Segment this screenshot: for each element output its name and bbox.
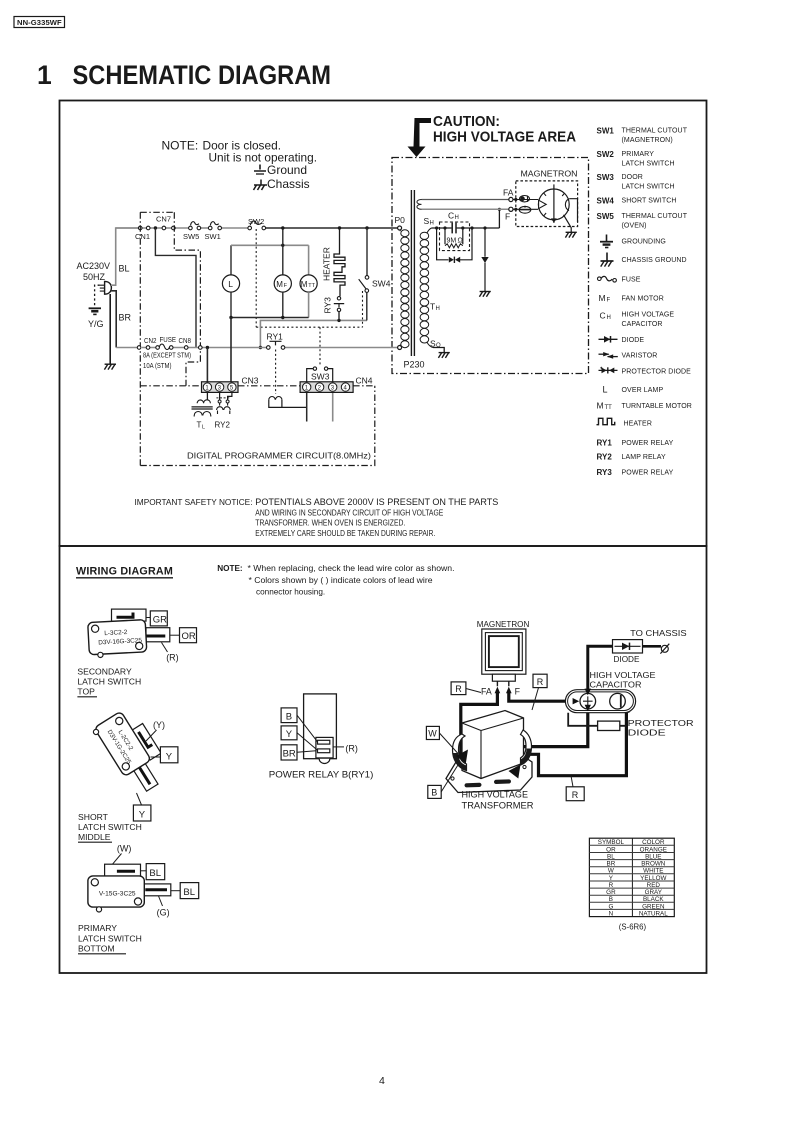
- svg-text:50HZ: 50HZ: [83, 272, 106, 282]
- label box BR: [281, 745, 297, 760]
- legend chassis symbol: [606, 253, 608, 262]
- node fuse line junction: [206, 346, 209, 349]
- top bus wire (black) SW2 to P0: [266, 227, 398, 229]
- top bus wire (gray): [116, 227, 189, 229]
- wire fuse line (gray): [116, 347, 397, 349]
- svg-text:(S-6R6): (S-6R6): [619, 923, 647, 932]
- heater element: [334, 228, 345, 296]
- svg-text:NN-G335WF: NN-G335WF: [17, 18, 62, 27]
- svg-text:PROTECTOR DIODE: PROTECTOR DIODE: [622, 369, 692, 376]
- resistor 9M: [445, 228, 463, 244]
- transformer filament winding: [417, 200, 422, 210]
- svg-text:CN3: CN3: [242, 376, 259, 386]
- relay coil RY2: [219, 393, 221, 400]
- magnetron anode wire: [569, 199, 577, 222]
- thick wire capacitor left to transformer: [517, 710, 588, 747]
- top tab: [132, 723, 162, 760]
- svg-text:TURNTABLE MOTOR: TURNTABLE MOTOR: [622, 403, 692, 410]
- svg-text:TOP: TOP: [77, 687, 95, 697]
- svg-text:DIODE: DIODE: [614, 655, 640, 664]
- high voltage area dash-dot box: [392, 158, 589, 374]
- svg-text:Ground: Ground: [267, 163, 307, 177]
- label box OR: [180, 628, 197, 643]
- svg-text:HIGH VOLTAGE: HIGH VOLTAGE: [462, 790, 529, 800]
- wire SH line: [431, 227, 499, 229]
- digital programmer circuit dash-dot boundary: [140, 386, 374, 466]
- svg-text:(R): (R): [345, 744, 358, 754]
- short latch switch (MIDDLE): [78, 705, 178, 842]
- svg-text:L: L: [228, 279, 233, 289]
- svg-text:TT: TT: [605, 405, 613, 411]
- magnetron ground: [564, 215, 572, 233]
- svg-text:SW5: SW5: [183, 232, 199, 241]
- svg-text:CN2: CN2: [144, 338, 157, 345]
- title: [37, 60, 331, 90]
- svg-text:PRIMARY: PRIMARY: [78, 923, 117, 933]
- svg-text:CN7: CN7: [156, 215, 171, 224]
- schematic outer box: [60, 101, 707, 547]
- label box GR: [150, 611, 167, 626]
- node MF tap: [281, 226, 284, 229]
- model label NN-G335WF: [14, 17, 65, 28]
- svg-text:C: C: [448, 211, 454, 221]
- label box BL 2: [180, 883, 199, 899]
- svg-text:TO CHASSIS: TO CHASSIS: [630, 629, 687, 638]
- R box bottom: [566, 787, 584, 801]
- svg-text:BLACK: BLACK: [643, 896, 664, 903]
- svg-text:C: C: [600, 311, 606, 321]
- svg-text:M: M: [597, 401, 604, 411]
- svg-text:BLUE: BLUE: [645, 854, 661, 861]
- magnetron tube: [538, 189, 569, 220]
- dashed link RY1: [275, 350, 277, 395]
- legend heater symbol: [597, 418, 615, 424]
- svg-text:VARISTOR: VARISTOR: [622, 353, 658, 360]
- svg-text:RED: RED: [647, 882, 661, 889]
- svg-text:(G): (G): [157, 908, 170, 918]
- svg-text:HEATER: HEATER: [322, 247, 332, 281]
- svg-text:M: M: [276, 280, 283, 289]
- svg-text:SW1: SW1: [205, 232, 221, 241]
- lamp top link (gray): [231, 244, 309, 246]
- dashed box CH: [440, 222, 470, 251]
- svg-text:SW4: SW4: [372, 279, 391, 289]
- protector diode: [568, 713, 626, 726]
- svg-text:RY1: RY1: [267, 332, 284, 342]
- svg-text:BL: BL: [183, 887, 195, 898]
- svg-text:LATCH SWITCH: LATCH SWITCH: [622, 184, 675, 191]
- turntable motor MTT: [300, 275, 317, 292]
- svg-text:Ω: Ω: [458, 238, 463, 245]
- svg-text:RY1: RY1: [597, 439, 613, 448]
- svg-text:CAPACITOR: CAPACITOR: [622, 321, 663, 328]
- power relay B(RY1): [269, 694, 374, 779]
- switch SW3: [307, 369, 313, 382]
- svg-text:RY2: RY2: [597, 453, 613, 462]
- svg-text:W: W: [428, 729, 437, 739]
- lamp L riser: [230, 245, 232, 275]
- svg-text:* Colors shown by ( ) indicate: * Colors shown by ( ) indicate colors of…: [249, 576, 433, 585]
- svg-text:F: F: [607, 298, 611, 304]
- connector CN1: [138, 226, 142, 230]
- svg-text:HIGH VOLTAGE: HIGH VOLTAGE: [590, 670, 656, 680]
- svg-text:SCHEMATIC DIAGRAM: SCHEMATIC DIAGRAM: [73, 60, 332, 90]
- svg-text:BL: BL: [119, 264, 130, 274]
- svg-text:H: H: [436, 306, 440, 312]
- lamp L: [222, 275, 239, 292]
- svg-text:B: B: [286, 711, 292, 722]
- thick wire FA to transformer: [461, 693, 498, 753]
- safety notice: [135, 497, 499, 538]
- caution arrow: [408, 118, 432, 157]
- top tab: [112, 609, 147, 621]
- svg-text:Chassis: Chassis: [267, 177, 310, 191]
- svg-text:GR: GR: [606, 889, 616, 896]
- chassis ground symbol: [104, 364, 116, 369]
- svg-text:YELLOW: YELLOW: [640, 875, 666, 882]
- svg-text:H: H: [430, 221, 434, 227]
- svg-text:* When replacing, check the le: * When replacing, check the lead wire co…: [248, 564, 455, 573]
- dash-dot box CN1/CN7: [140, 212, 200, 465]
- turntable motor riser (gray): [308, 245, 310, 275]
- svg-text:FA: FA: [503, 188, 514, 198]
- svg-text:G: G: [608, 903, 613, 910]
- label box R (left): [451, 682, 466, 695]
- magnetron dotted box: [516, 181, 578, 227]
- svg-text:H: H: [607, 315, 611, 321]
- svg-text:B: B: [609, 896, 613, 903]
- top tab: [105, 864, 141, 877]
- svg-text:FAN MOTOR: FAN MOTOR: [622, 296, 664, 303]
- fan motor riser: [282, 228, 284, 275]
- switch SW1: [208, 226, 212, 230]
- svg-text:B: B: [431, 788, 437, 798]
- svg-text:V-15G-3C25: V-15G-3C25: [99, 891, 136, 898]
- svg-text:T: T: [430, 302, 435, 312]
- right tab: [144, 884, 171, 896]
- svg-text:(OVEN): (OVEN): [622, 223, 647, 230]
- svg-text:M: M: [599, 293, 606, 303]
- filament leads: [422, 199, 509, 201]
- svg-text:H: H: [455, 215, 459, 221]
- terminal F: [509, 207, 513, 211]
- svg-text:SYMBOL: SYMBOL: [598, 839, 625, 846]
- fan motor MF: [274, 275, 291, 292]
- svg-text:GR: GR: [153, 614, 167, 625]
- svg-text:LATCH SWITCH: LATCH SWITCH: [78, 822, 142, 832]
- chassis ground varistor: [479, 292, 490, 297]
- svg-text:OVER LAMP: OVER LAMP: [622, 387, 664, 394]
- switch SW4: [366, 228, 368, 276]
- switch SW2: [248, 226, 252, 230]
- node dots SH line: [435, 226, 438, 229]
- transformer pictorial: [446, 754, 532, 793]
- svg-text:N: N: [609, 911, 614, 918]
- relay contact RY1: [267, 346, 271, 350]
- svg-text:FUSE: FUSE: [622, 277, 641, 284]
- svg-text:MAGNETRON: MAGNETRON: [521, 169, 578, 179]
- svg-text:PROTECTOR: PROTECTOR: [628, 718, 694, 728]
- svg-text:SW3: SW3: [597, 173, 615, 182]
- legend diode symbol: [599, 338, 618, 340]
- svg-text:HIGH VOLTAGE AREA: HIGH VOLTAGE AREA: [433, 129, 576, 146]
- svg-text:POWER RELAY: POWER RELAY: [622, 470, 674, 477]
- transformer secondary winding: [420, 228, 433, 348]
- switch body: [88, 876, 144, 907]
- svg-text:9M: 9M: [447, 238, 457, 245]
- svg-text:LATCH SWITCH: LATCH SWITCH: [622, 161, 675, 168]
- label box B: [428, 785, 441, 798]
- svg-text:POWER RELAY: POWER RELAY: [622, 440, 674, 447]
- leaders: [297, 715, 318, 752]
- terminal P230 bottom: [398, 346, 402, 350]
- dotted linkage SW4: [362, 291, 364, 327]
- transformer primary winding: [400, 229, 409, 348]
- switch body: [88, 620, 147, 658]
- svg-text:Y: Y: [139, 810, 146, 821]
- wire BR: [111, 291, 116, 348]
- svg-text:8A (EXCEPT STM): 8A (EXCEPT STM): [143, 353, 191, 360]
- wire CN4 pin1: [306, 392, 308, 422]
- svg-text:GREEN: GREEN: [642, 903, 665, 910]
- dotted linkage rail: [256, 326, 362, 328]
- capacitor CH plates: [452, 223, 456, 234]
- varistor: [484, 228, 486, 292]
- svg-text:MIDDLE: MIDDLE: [78, 832, 111, 842]
- svg-text:DIODE: DIODE: [628, 727, 666, 737]
- svg-text:ORANGE: ORANGE: [640, 846, 667, 853]
- svg-text:DIODE: DIODE: [622, 337, 645, 344]
- svg-text:PRIMARY: PRIMARY: [622, 151, 655, 158]
- svg-text:OR: OR: [606, 846, 616, 853]
- dotted door linkage SW2: [255, 229, 257, 327]
- svg-text:P230: P230: [404, 360, 425, 370]
- svg-text:10A (STM): 10A (STM): [143, 363, 172, 370]
- svg-text:CAUTION:: CAUTION:: [433, 113, 500, 130]
- svg-text:BR: BR: [283, 749, 296, 760]
- svg-text:R: R: [537, 677, 544, 687]
- label box Y: [281, 726, 297, 740]
- svg-text:AC230V: AC230V: [77, 261, 111, 271]
- wire F drop: [498, 209, 500, 228]
- svg-text:SHORT SWITCH: SHORT SWITCH: [622, 198, 677, 205]
- svg-text:HEATER: HEATER: [624, 421, 652, 428]
- svg-text:RY2: RY2: [215, 421, 231, 430]
- svg-text:AND WIRING IN SECONDARY CIRCUI: AND WIRING IN SECONDARY CIRCUIT OF HIGH …: [255, 507, 443, 517]
- svg-text:SW1: SW1: [597, 127, 615, 136]
- svg-text:L: L: [202, 425, 205, 431]
- svg-text:SW2: SW2: [597, 150, 615, 159]
- svg-text:T: T: [197, 421, 202, 430]
- secondary latch switch (TOP): [77, 609, 196, 697]
- thick wire transformer to capacitor right: [515, 713, 627, 776]
- svg-text:BL: BL: [149, 868, 161, 879]
- svg-text:Y/G: Y/G: [88, 319, 104, 329]
- svg-text:THERMAL CUTOUT: THERMAL CUTOUT: [622, 213, 688, 220]
- svg-text:RY3: RY3: [597, 468, 613, 477]
- label box Y bottom: [133, 805, 151, 821]
- wire capacitor to diode: [588, 646, 613, 689]
- svg-text:WIRING DIAGRAM: WIRING DIAGRAM: [76, 566, 173, 578]
- svg-text:IMPORTANT SAFETY NOTICE:: IMPORTANT SAFETY NOTICE:: [135, 497, 253, 507]
- legend varistor symbol: [599, 353, 609, 355]
- svg-text:BL: BL: [607, 854, 615, 861]
- transformer T core: [411, 190, 414, 356]
- svg-text:NOTE:: NOTE:: [217, 564, 242, 573]
- svg-text:BROWN: BROWN: [641, 861, 666, 868]
- wire CN3 pin1 riser: [206, 348, 208, 383]
- svg-text:BOTTOM: BOTTOM: [78, 943, 115, 953]
- connector CN3: [202, 382, 239, 393]
- wire CN4 pin3 (gray): [332, 392, 334, 422]
- svg-text:SW5: SW5: [597, 212, 615, 221]
- svg-text:HIGH VOLTAGE: HIGH VOLTAGE: [622, 312, 675, 319]
- svg-text:R: R: [455, 684, 462, 694]
- svg-text:CN1: CN1: [135, 232, 150, 241]
- label box W: [426, 726, 439, 739]
- svg-text:(W): (W): [117, 844, 131, 854]
- ground symbol (note): [254, 165, 266, 175]
- svg-text:SW2: SW2: [248, 217, 264, 226]
- color code table: [589, 838, 674, 931]
- wire CN3 pin5 riser: [230, 318, 232, 383]
- svg-text:P0: P0: [395, 215, 406, 225]
- thermal cutout on F: [513, 208, 538, 210]
- wire S0 to ground: [433, 348, 444, 353]
- label box Y right: [160, 747, 178, 763]
- svg-text:GRAY: GRAY: [645, 889, 663, 896]
- svg-text:LAMP RELAY: LAMP RELAY: [622, 454, 667, 461]
- svg-text:SW3: SW3: [311, 372, 330, 382]
- relay contact RY3: [337, 297, 340, 300]
- svg-text:MAGNETRON: MAGNETRON: [477, 620, 530, 629]
- label box B: [281, 708, 297, 723]
- grounding symbol Y/G: [89, 307, 101, 309]
- svg-text:DOOR: DOOR: [622, 174, 643, 181]
- right tab: [146, 628, 170, 642]
- svg-text:W: W: [608, 868, 614, 875]
- svg-text:LATCH SWITCH: LATCH SWITCH: [78, 933, 142, 943]
- svg-text:M: M: [301, 280, 308, 289]
- node CN1 junction: [154, 226, 157, 229]
- svg-text:DIGITAL PROGRAMMER CIRCUIT(8.0: DIGITAL PROGRAMMER CIRCUIT(8.0MHz): [187, 451, 371, 461]
- switch SW5: [189, 226, 193, 230]
- terminal FA: [509, 197, 513, 201]
- svg-text:RY3: RY3: [323, 297, 333, 314]
- note block: [162, 139, 318, 192]
- svg-text:SW4: SW4: [597, 197, 615, 206]
- protector diode loop: [437, 228, 472, 260]
- svg-text:TT: TT: [308, 283, 315, 289]
- (R) label: [162, 643, 168, 653]
- ground dotted wire: [95, 285, 100, 306]
- terminal P0: [398, 226, 402, 230]
- svg-text:OR: OR: [182, 631, 196, 642]
- svg-text:R: R: [572, 790, 579, 800]
- label box BL 1: [146, 864, 165, 880]
- (R) leader: [333, 746, 344, 748]
- svg-text:SHORT: SHORT: [78, 812, 109, 822]
- legend fuse symbol: [598, 277, 602, 281]
- node heater tap junction: [338, 226, 341, 229]
- svg-text:SECONDARY: SECONDARY: [77, 667, 132, 677]
- svg-text:1: 1: [37, 60, 52, 90]
- chassis symbol (note): [254, 180, 268, 191]
- svg-text:LATCH SWITCH: LATCH SWITCH: [77, 677, 141, 687]
- node SW4 tap: [365, 226, 368, 229]
- svg-text:R: R: [609, 882, 614, 889]
- svg-text:THERMAL CUTOUT: THERMAL CUTOUT: [622, 128, 688, 135]
- wire to chassis: [109, 294, 111, 364]
- primary latch switch (BOTTOM): [78, 844, 199, 954]
- svg-text:CN4: CN4: [356, 376, 373, 386]
- svg-text:L-3C2-2: L-3C2-2: [104, 629, 128, 637]
- svg-text:NOTE:: NOTE:: [162, 139, 199, 153]
- svg-text:(Y): (Y): [153, 720, 165, 730]
- svg-text:POWER RELAY B(RY1): POWER RELAY B(RY1): [269, 769, 374, 779]
- svg-text:BR: BR: [607, 861, 616, 868]
- label box R (middle): [533, 674, 547, 687]
- wire BL (gray): [111, 228, 138, 285]
- connector CN8: [184, 346, 188, 350]
- thermal cutout on FA: [513, 199, 538, 201]
- connector CN7: [162, 226, 166, 230]
- wiring outer box: [60, 546, 707, 973]
- svg-text:L: L: [603, 385, 608, 395]
- svg-text:connector housing.: connector housing.: [256, 588, 325, 597]
- svg-text:4: 4: [379, 1075, 385, 1087]
- svg-text:GROUNDING: GROUNDING: [622, 239, 666, 246]
- svg-text:FUSE: FUSE: [160, 337, 177, 344]
- fuse: [156, 346, 160, 350]
- bottom bus (black): [231, 317, 309, 319]
- svg-text:TRANSFORMER: TRANSFORMER: [462, 801, 534, 811]
- svg-text:F: F: [515, 686, 521, 696]
- legend protector diode symbol: [599, 369, 618, 371]
- connector CN4: [300, 382, 353, 393]
- svg-text:FA: FA: [481, 686, 492, 696]
- end tab: [133, 763, 158, 791]
- svg-text:(MAGNETRON): (MAGNETRON): [622, 137, 673, 144]
- svg-text:NATURAL: NATURAL: [639, 911, 668, 918]
- wire CN1 step (black): [155, 228, 196, 348]
- svg-text:(R): (R): [166, 653, 179, 663]
- svg-text:CAPACITOR: CAPACITOR: [590, 679, 642, 689]
- transformer TL: [206, 393, 208, 400]
- thick wire F to capacitor: [509, 693, 572, 702]
- return bus (gray): [260, 320, 367, 347]
- svg-text:TRANSFORMER. WHEN OVEN IS ENER: TRANSFORMER. WHEN OVEN IS ENERGIZED.: [255, 518, 405, 528]
- chassis ground S0: [438, 353, 449, 358]
- svg-text:BR: BR: [119, 313, 132, 323]
- svg-text:F: F: [505, 212, 510, 222]
- svg-text:COLOR: COLOR: [642, 839, 665, 846]
- relay coil RY1: [269, 397, 282, 400]
- legend grounding symbol: [606, 235, 608, 242]
- body: [94, 711, 151, 776]
- wire to GR: [146, 617, 150, 619]
- svg-text:Y: Y: [286, 729, 293, 740]
- mains plug: [105, 281, 112, 294]
- svg-text:Y: Y: [166, 751, 173, 762]
- svg-text:POTENTIALS ABOVE 2000V IS PRES: POTENTIALS ABOVE 2000V IS PRESENT ON THE…: [255, 497, 498, 507]
- svg-text:WHITE: WHITE: [643, 868, 663, 875]
- connector CN2: [137, 346, 141, 350]
- svg-text:CHASSIS GROUND: CHASSIS GROUND: [622, 257, 687, 264]
- svg-text:EXTREMELY CARE SHOULD BE TAKEN: EXTREMELY CARE SHOULD BE TAKEN DURING RE…: [255, 528, 435, 538]
- svg-text:CN8: CN8: [179, 338, 192, 345]
- dotted linkage SW3: [319, 327, 321, 366]
